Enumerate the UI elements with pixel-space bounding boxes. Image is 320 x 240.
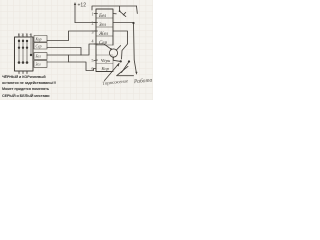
node A (120, 60, 122, 62)
svg-text:Работа: Работа (133, 77, 153, 86)
node J1 pins (18, 40, 20, 42)
J1 top pin stubs (18, 34, 20, 37)
switch SW1 (113, 13, 116, 15)
wire +12 top rail (92, 6, 137, 10)
lever shape diagonal (118, 66, 129, 75)
svg-text:3: 3 (26, 33, 28, 37)
note text bottom left (2, 74, 56, 99)
J1 bottom pin stubs (18, 71, 20, 74)
graph paper grid (decorative) (0, 0, 153, 100)
svg-text:+12: +12 (78, 3, 87, 9)
node switch pivot (119, 10, 121, 12)
svg-text:Торможение: Торможение (102, 79, 129, 87)
labels on wire color boxes (35, 38, 42, 67)
connector J2 (right box) (96, 9, 113, 45)
label box Зел (34, 61, 47, 68)
svg-text:3: 3 (92, 30, 94, 35)
power +12 arrow (74, 3, 76, 23)
node lamp top (110, 48, 112, 50)
wire row3 drop (113, 31, 128, 59)
node lamp bottom (112, 57, 114, 59)
node row2 junction (132, 22, 134, 24)
svg-text:2: 2 (22, 33, 24, 37)
svg-text:Сер: Сер (36, 45, 42, 49)
node B (128, 60, 130, 62)
connector J1 (left block) (15, 37, 34, 71)
wire Работа drop (134, 23, 137, 73)
wire row2 to node (113, 22, 134, 24)
top rail end hook (136, 6, 139, 14)
svg-text:Кор: Кор (101, 66, 110, 71)
lamp HL1 (109, 49, 117, 57)
wire lamp bottom to node A (113, 57, 120, 61)
arrow Торможение (105, 63, 120, 80)
svg-text:6: 6 (92, 66, 94, 71)
lever shape bottom (117, 75, 134, 77)
wire W3 branch down to J2 pin6 (69, 55, 97, 71)
label box Бел (34, 53, 47, 60)
junction dots (18, 10, 135, 64)
contact arm from node B (122, 62, 129, 72)
svg-text:4: 4 (30, 33, 32, 37)
component value labels (18, 3, 153, 87)
svg-text:Жел: Жел (98, 32, 108, 37)
svg-text:1: 1 (92, 12, 94, 17)
pin numbers J1 (18, 33, 32, 37)
svg-text:Зел: Зел (99, 23, 106, 28)
wire row4 to lamp (96, 44, 111, 49)
svg-text:5: 5 (92, 58, 94, 63)
svg-text:1: 1 (18, 33, 20, 37)
svg-text:Зел: Зел (36, 63, 41, 67)
svg-text:Чёрн: Чёрн (101, 58, 112, 63)
wire +12 to J2 pin2 (75, 22, 96, 24)
svg-text:4: 4 (92, 39, 94, 44)
label box Сер (34, 43, 47, 49)
wire W1 (Кор row to J2 pin3) (47, 31, 96, 41)
wire W4 (Зел row, faint) (47, 61, 69, 63)
svg-text:Кор: Кор (35, 38, 42, 42)
J2 pin ticks (94, 14, 98, 61)
pin numbers J2 (92, 12, 94, 72)
wire W3 (Бел row) (47, 54, 81, 56)
wire W2 (Сер row to J2 pin4) (47, 44, 96, 55)
svg-text:Сер: Сер (99, 41, 108, 46)
svg-text:Бел: Бел (98, 14, 106, 19)
label box Кор (34, 36, 47, 42)
svg-text:Бел: Бел (35, 55, 42, 59)
J1 pin column wires (19, 38, 31, 63)
svg-text:2: 2 (92, 21, 94, 26)
